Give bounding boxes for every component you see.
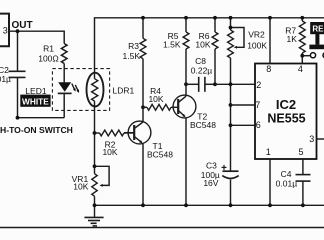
svg-text:8: 8 <box>266 64 271 74</box>
svg-text:3: 3 <box>309 134 314 144</box>
svg-text:7: 7 <box>255 100 260 110</box>
svg-text:RED: RED <box>312 24 324 33</box>
svg-text:H-TO-ON SWITCH: H-TO-ON SWITCH <box>0 125 73 135</box>
svg-text:1.5K: 1.5K <box>123 51 141 61</box>
svg-text:6: 6 <box>256 120 261 130</box>
svg-text:R3: R3 <box>128 41 139 51</box>
svg-text:C3: C3 <box>206 160 217 170</box>
svg-text:1K: 1K <box>286 34 297 44</box>
svg-text:NE555: NE555 <box>267 111 305 125</box>
svg-text:0.01µ: 0.01µ <box>0 74 11 84</box>
svg-text:1.5K: 1.5K <box>163 40 181 50</box>
svg-text:5: 5 <box>298 147 303 157</box>
svg-text:10K: 10K <box>102 147 117 157</box>
svg-text:3: 3 <box>3 25 8 35</box>
svg-text:WHITE: WHITE <box>22 96 49 106</box>
svg-text:100Ω: 100Ω <box>38 53 59 63</box>
svg-text:1: 1 <box>266 147 271 157</box>
svg-text:BC548: BC548 <box>147 149 173 159</box>
svg-text:LDR1: LDR1 <box>113 86 135 96</box>
svg-text:R1: R1 <box>43 43 54 53</box>
svg-text:C8: C8 <box>195 56 206 66</box>
svg-text:10K: 10K <box>73 181 88 191</box>
svg-text:16V: 16V <box>203 178 218 188</box>
svg-text:VR2: VR2 <box>248 29 265 39</box>
svg-text:BC548: BC548 <box>190 120 216 130</box>
svg-text:10K: 10K <box>195 40 210 50</box>
svg-text:IC2: IC2 <box>276 97 296 112</box>
svg-text:0.01µ: 0.01µ <box>276 178 298 188</box>
svg-text:OUT: OUT <box>12 20 33 31</box>
svg-text:4: 4 <box>298 64 303 74</box>
svg-text:LED1: LED1 <box>25 86 47 96</box>
svg-text:100K: 100K <box>247 40 267 50</box>
svg-text:2: 2 <box>256 80 261 90</box>
svg-text:0.22µ: 0.22µ <box>191 65 213 75</box>
svg-text:10K: 10K <box>148 94 163 104</box>
